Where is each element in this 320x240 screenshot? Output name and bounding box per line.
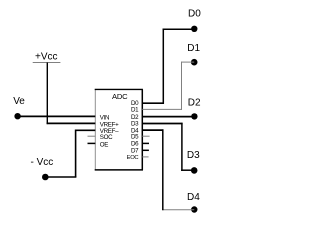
svg-text:Ve: Ve <box>13 96 25 107</box>
wire D4 horizontal bottom <box>162 209 194 211</box>
pin D7 stub <box>142 149 149 151</box>
svg-text:SOC: SOC <box>100 134 113 141</box>
wire D3 horizontal bottom <box>181 169 194 171</box>
wire to VREF- <box>76 129 96 131</box>
pin SOC stub <box>88 135 96 137</box>
svg-text:D7: D7 <box>131 148 139 155</box>
wire D1 vertical <box>181 62 183 110</box>
svg-text:D4: D4 <box>187 192 200 203</box>
svg-text:D0: D0 <box>188 8 201 19</box>
wire D1 horizontal top <box>181 61 194 63</box>
pin D6 stub <box>142 142 149 144</box>
svg-text:D3: D3 <box>187 150 200 161</box>
wire D3 to pin <box>142 123 182 125</box>
wire to VREF+ <box>47 122 96 124</box>
svg-text:- Vcc: - Vcc <box>31 157 54 168</box>
pin OE stub <box>88 142 96 144</box>
wire -Vcc right <box>45 176 76 178</box>
wire D0 horizontal top <box>163 28 195 30</box>
ADC U1 chip body <box>95 89 143 169</box>
pin EOC stub <box>142 156 148 158</box>
wire Ve to VIN <box>18 115 96 117</box>
svg-text:OE: OE <box>100 141 109 148</box>
wire +Vcc down <box>46 63 48 125</box>
pin D5 stub <box>142 135 149 137</box>
svg-text:D5: D5 <box>131 133 139 140</box>
wire D4 vertical <box>162 129 164 210</box>
wire D4 to pin <box>142 129 163 131</box>
svg-text:D1: D1 <box>187 43 200 54</box>
wire -Vcc up <box>75 130 77 178</box>
svg-text:D1: D1 <box>131 107 139 114</box>
wire D3 vertical <box>181 123 183 171</box>
svg-text:ADC: ADC <box>112 92 128 101</box>
wire D0 vertical <box>162 29 164 104</box>
svg-text:EOC: EOC <box>127 155 139 161</box>
wire D0 to pin <box>142 102 164 104</box>
wire D2 to pin <box>142 116 194 118</box>
svg-text:D2: D2 <box>188 98 201 109</box>
wire D1 to pin <box>142 108 182 110</box>
svg-text:+Vcc: +Vcc <box>35 52 58 63</box>
